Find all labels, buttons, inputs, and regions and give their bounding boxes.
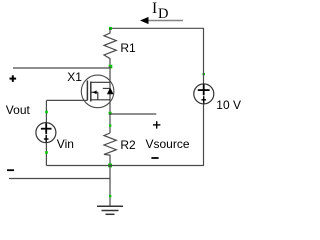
node dot at R1 top <box>109 27 112 30</box>
ground symbol <box>97 206 123 214</box>
svg-text:I: I <box>152 0 157 17</box>
svg-text:X1: X1 <box>67 70 82 84</box>
label + (Vout plus terminal) <box>10 75 17 82</box>
node dot on Vin top lead <box>45 111 48 114</box>
node dot on Vin bottom lead <box>45 151 48 154</box>
node dot: source node <box>109 112 112 115</box>
wire: right rail lower <box>203 104 205 166</box>
svg-text:R1: R1 <box>120 41 136 55</box>
wire: rail from source node to R2 <box>109 113 111 133</box>
node dot: bottom junction <box>108 164 112 168</box>
label Vout <box>6 103 31 117</box>
node tick on ground stem <box>109 195 111 197</box>
label R1 <box>120 41 136 55</box>
wire: Vin bottom lead <box>45 143 47 166</box>
resistor R1 <box>104 28 116 66</box>
label - (Vsource minus) <box>151 157 158 159</box>
node dot: drain junction <box>109 65 113 69</box>
svg-text:Vout: Vout <box>6 103 31 117</box>
label Vsource <box>146 137 190 151</box>
label 10 V <box>216 98 241 112</box>
voltage source 10 V <box>194 84 214 104</box>
wire: gate wire from Vin branch to gate <box>46 99 87 101</box>
svg-text:10 V: 10 V <box>216 98 241 112</box>
svg-text:D: D <box>158 6 168 22</box>
wire: ground stem <box>109 166 111 207</box>
label Vin <box>57 137 74 151</box>
voltage source Vin <box>36 123 56 143</box>
node tick on rail above R2 <box>109 124 111 126</box>
current arrow ID <box>140 17 183 24</box>
wire: top rail from R1 to right rail <box>110 27 204 29</box>
svg-text:R2: R2 <box>120 138 136 152</box>
wire: Vsource+ sense stub <box>110 113 156 115</box>
wire: Vout- sense wire <box>9 178 110 180</box>
wire: Vin top lead <box>45 100 47 122</box>
wire: Vout+ sense wire to drain node <box>13 67 110 69</box>
resistor R2 <box>104 133 116 165</box>
svg-text:Vsource: Vsource <box>146 137 190 151</box>
node tick on right rail <box>203 73 205 75</box>
label + (Vsource plus) <box>153 121 160 128</box>
label - (Vout minus terminal) <box>7 169 14 171</box>
label R2 <box>120 138 136 152</box>
wire: center rail through transistor (drain to source node) <box>109 66 111 113</box>
svg-text:Vin: Vin <box>57 137 74 151</box>
transistor X1 NMOS (circle) <box>81 75 114 108</box>
label X1 <box>67 70 82 84</box>
wire: right rail upper <box>203 28 205 84</box>
label I_D <box>152 0 168 22</box>
wire: bottom rail (Vin- to right rail) <box>46 165 204 167</box>
